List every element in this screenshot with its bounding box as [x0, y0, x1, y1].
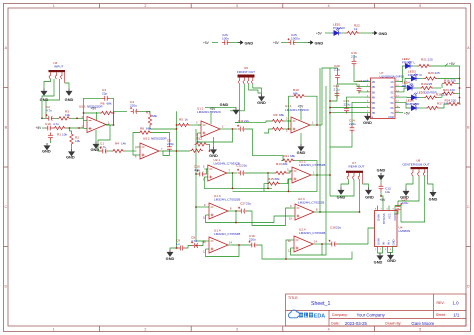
svg-text:C: C	[4, 205, 7, 209]
svg-text:1000u: 1000u	[291, 37, 300, 41]
wire	[359, 32, 372, 34]
wire U2.3 out	[318, 211, 323, 213]
wire U3 pin3	[46, 79, 60, 118]
capacitor C12 22u	[236, 163, 247, 175]
LED6 SUBWFR	[406, 99, 420, 111]
wire	[71, 146, 73, 150]
wire	[246, 172, 275, 174]
svg-text:LM324N_C70532B: LM324N_C70532B	[214, 198, 240, 202]
svg-text:GND: GND	[374, 259, 383, 264]
wire	[325, 32, 332, 34]
svg-text:C: C	[467, 205, 470, 209]
wire	[267, 188, 269, 190]
ground (right arrow)	[308, 40, 323, 45]
svg-text:+5V: +5V	[36, 126, 43, 130]
wire	[230, 42, 238, 44]
wire U1.4 out	[232, 244, 250, 246]
capacitor C1 4.7u	[100, 142, 108, 154]
capacitor C20	[334, 64, 340, 81]
op-amp U1.4 LM324N_C70532B	[203, 228, 240, 253]
svg-text:D: D	[4, 285, 7, 289]
svg-text:68k: 68k	[279, 113, 284, 117]
svg-text:GAIN: GAIN	[376, 214, 380, 221]
ground	[65, 89, 74, 103]
svg-text:7B: 7B	[372, 111, 375, 115]
wire	[235, 211, 237, 223]
svg-text:220u: 220u	[249, 238, 256, 242]
svg-text:REV:: REV:	[437, 301, 445, 305]
svg-text:Date:: Date:	[331, 322, 339, 326]
svg-text:R8: R8	[140, 127, 144, 131]
svg-text:100n: 100n	[222, 37, 229, 41]
capacitor C? vertical to ground	[48, 133, 53, 141]
wire long vertical bus A	[176, 111, 178, 248]
ground (U5.1 V-)	[95, 130, 97, 142]
ground	[40, 89, 49, 103]
capacitor C25	[288, 33, 300, 45]
wire	[431, 66, 460, 104]
wire U2.2 out	[315, 174, 331, 176]
wire LED fan	[400, 66, 410, 108]
svg-text:Company:: Company:	[332, 313, 348, 317]
resistor R2 10k vertical	[70, 133, 81, 146]
svg-text:BYPASS: BYPASS	[382, 213, 386, 224]
wire	[66, 127, 84, 129]
svg-text:22p: 22p	[102, 92, 107, 96]
svg-text:68k: 68k	[107, 102, 112, 106]
svg-text:4: 4	[328, 328, 330, 332]
wire	[395, 211, 398, 215]
connector U6 FRONT OUT	[237, 66, 255, 84]
svg-text:GND: GND	[377, 167, 386, 172]
svg-text:+5V: +5V	[316, 31, 323, 35]
resistor R22 1k	[346, 24, 360, 35]
title block	[286, 294, 467, 326]
resistor R20 225	[424, 71, 440, 80]
capacitor C23	[357, 79, 370, 94]
svg-text:GND: GND	[220, 102, 229, 107]
wire	[437, 78, 460, 80]
op-amp U2.1 LM324N_C70532B	[203, 158, 240, 181]
wire	[398, 176, 419, 204]
capacitor C21	[334, 84, 340, 99]
resistor R3 10k	[58, 110, 71, 121]
svg-text:+5V: +5V	[449, 62, 456, 66]
wire	[341, 32, 346, 34]
resistor R23 220	[442, 88, 460, 98]
ground	[66, 149, 75, 160]
capacitor C24	[349, 118, 356, 133]
svg-text:VCC: VCC	[387, 213, 391, 219]
resistor R6 68k	[100, 102, 113, 115]
svg-text:220u: 220u	[344, 102, 351, 106]
ground (U7)	[363, 114, 372, 126]
svg-text:GND: GND	[166, 256, 175, 261]
wire	[42, 127, 45, 129]
wire feedback loop U5.1	[84, 98, 103, 128]
wire	[437, 97, 442, 99]
svg-text:GND: GND	[257, 100, 266, 105]
ground	[337, 188, 346, 200]
ground (C13 top)	[377, 167, 386, 180]
wire	[381, 192, 383, 206]
wire	[195, 173, 197, 175]
svg-text:R5: R5	[179, 118, 183, 122]
LED1 POWER	[332, 23, 345, 36]
op-amp U1.1 LM324N-TP2520	[196, 106, 224, 137]
wire	[176, 128, 178, 130]
svg-text:+5V: +5V	[380, 198, 387, 202]
wire	[264, 184, 267, 192]
wire	[112, 112, 115, 114]
wire	[338, 81, 366, 87]
resistor R17 225	[426, 102, 449, 110]
svg-text:GND: GND	[65, 97, 74, 102]
wire riser to cap column	[322, 68, 338, 125]
svg-text:LM324N_C70532B: LM324N_C70532B	[299, 231, 325, 235]
wire	[347, 97, 366, 105]
svg-text:1: 1	[53, 328, 55, 332]
wire	[152, 133, 170, 145]
svg-text:GND: GND	[315, 40, 324, 45]
wire	[286, 240, 291, 259]
svg-text:1k: 1k	[185, 118, 189, 122]
wire	[284, 128, 291, 130]
connector U8 CENTER/SUB OUT	[402, 158, 429, 180]
wire	[296, 42, 308, 44]
svg-text:NE5532DR: NE5532DR	[151, 136, 167, 140]
LED2 FRONT L	[402, 57, 415, 69]
wire long vertical bus B	[196, 129, 206, 241]
ground (right arrow)	[372, 31, 387, 36]
svg-text:225: 225	[427, 82, 432, 86]
svg-text:R24: R24	[445, 99, 451, 103]
wire	[257, 245, 352, 259]
ground	[400, 189, 409, 200]
svg-text:GND: GND	[297, 150, 306, 155]
capacitor C26	[222, 33, 230, 45]
wire U4.1 out	[314, 124, 323, 126]
wire U5.2 out	[163, 150, 191, 152]
resistor R10 68k (U4.1 feedback)	[293, 88, 306, 98]
svg-text:+5V: +5V	[404, 111, 411, 115]
ground	[365, 188, 374, 200]
svg-text:2: 2	[144, 4, 146, 8]
svg-text:22u: 22u	[242, 163, 247, 167]
svg-text:R9: R9	[274, 113, 278, 117]
svg-text:10u: 10u	[385, 190, 390, 194]
capacitor C14 220u	[396, 197, 409, 211]
wire	[428, 180, 433, 189]
wire	[233, 190, 289, 192]
svg-text:LM324N_C70532B: LM324N_C70532B	[214, 232, 240, 236]
power flag +5V (U7 COM)	[400, 111, 411, 115]
svg-text:+5V: +5V	[203, 41, 210, 45]
wire U3 pin1 to ground	[44, 79, 51, 89]
svg-text:COM: COM	[388, 116, 394, 119]
wire	[306, 96, 318, 125]
svg-text:GND: GND	[387, 258, 396, 263]
svg-text:220: 220	[451, 99, 456, 103]
resistor R1 10k	[53, 126, 67, 136]
ground	[170, 248, 178, 250]
svg-text:4C: 4C	[390, 96, 393, 100]
svg-text:4.7u: 4.7u	[194, 168, 200, 172]
svg-text:R7: R7	[146, 111, 150, 115]
svg-text:3C: 3C	[390, 90, 393, 94]
svg-text:POWER: POWER	[333, 26, 345, 30]
wire to U5.1	[71, 117, 84, 119]
capacitor C8 4.7u	[191, 236, 200, 248]
wire	[419, 107, 427, 109]
svg-text:GND: GND	[42, 149, 51, 154]
wire	[176, 124, 179, 126]
svg-text:R20: R20	[428, 71, 434, 75]
wire	[413, 65, 418, 67]
capacitor C27 22u	[238, 201, 251, 213]
logo EasyEDA	[289, 310, 326, 319]
wire	[415, 87, 421, 89]
svg-text:2023-03-25: 2023-03-25	[345, 321, 368, 326]
svg-text:TITLE:: TITLE:	[288, 296, 299, 300]
op-amp U5.2 NE5532DR	[135, 136, 167, 159]
svg-text:SUBWFR: SUBWFR	[406, 102, 420, 106]
wire	[163, 151, 170, 156]
svg-text:4.7u: 4.7u	[46, 109, 52, 113]
wire U1.3 feedback loop	[206, 215, 292, 223]
resistor R9 68k	[271, 113, 284, 123]
svg-text:R11: R11	[284, 154, 290, 158]
wire	[320, 211, 359, 213]
svg-text:225: 225	[435, 71, 440, 75]
wire U5.1 out up to C4	[114, 111, 128, 125]
wire U6 left pins down	[235, 84, 240, 122]
svg-text:R18: R18	[436, 92, 442, 96]
capacitor C22	[344, 99, 351, 114]
svg-text:1k: 1k	[354, 27, 358, 31]
svg-text:4B: 4B	[372, 96, 375, 100]
svg-text:1/1: 1/1	[453, 312, 460, 317]
wire	[253, 84, 262, 94]
wire riser	[322, 86, 326, 255]
wire	[186, 246, 192, 249]
resistor R16 220	[442, 78, 460, 88]
svg-text:U5.2: U5.2	[143, 136, 150, 140]
svg-text:R6: R6	[101, 102, 105, 106]
wire	[54, 117, 58, 119]
svg-text:IN +: IN +	[386, 240, 390, 245]
wire riser	[319, 68, 321, 212]
svg-text:14k: 14k	[121, 142, 126, 146]
capacitor C11 22u	[237, 119, 249, 131]
svg-text:220p: 220p	[167, 142, 174, 146]
svg-text:GND: GND	[209, 153, 218, 158]
svg-text:220u: 220u	[402, 201, 409, 205]
ground	[213, 137, 215, 147]
wire	[363, 184, 369, 188]
svg-text:GND: GND	[391, 239, 395, 245]
resistor R13 68k	[275, 162, 288, 175]
wire	[433, 87, 441, 89]
svg-text:3: 3	[236, 328, 238, 332]
svg-text:GND: GND	[337, 195, 346, 200]
op-amp U4.1 LM324N-TP2520	[285, 104, 314, 133]
wire	[388, 252, 391, 253]
resistor R19 225	[420, 82, 433, 90]
svg-text:C10: C10	[45, 122, 51, 126]
svg-text:68k: 68k	[146, 127, 151, 131]
ground (right arrow)	[238, 40, 253, 45]
wire	[378, 252, 381, 254]
connector U5 REAR OUT	[346, 161, 365, 184]
capacitor C2 4.7u	[46, 105, 54, 121]
wire	[139, 111, 151, 113]
wire	[247, 208, 292, 226]
svg-text:VOUT: VOUT	[393, 213, 397, 221]
wire	[354, 67, 366, 82]
capacitor C4 220u	[130, 100, 139, 114]
capacitor C3 22p	[102, 88, 110, 101]
wire	[281, 42, 288, 44]
resistor R18 225	[424, 92, 448, 99]
wire	[406, 176, 413, 189]
svg-text:GND: GND	[363, 120, 372, 125]
wire U2.4 feedback loop	[291, 244, 323, 255]
ground	[429, 190, 438, 202]
IC U7 ULN2003A-DIP16	[366, 71, 405, 119]
svg-text:2.2u: 2.2u	[334, 67, 340, 71]
wire	[50, 141, 52, 144]
svg-text:GND: GND	[429, 196, 438, 201]
wire	[205, 106, 236, 108]
wire U6 to ground	[249, 84, 262, 93]
svg-text:225: 225	[428, 57, 433, 61]
op-amp U2.2 LM324N_C70532B	[287, 160, 325, 184]
ground	[220, 102, 240, 115]
wire	[330, 107, 366, 109]
svg-text:+5V: +5V	[91, 107, 98, 111]
svg-text:1u: 1u	[176, 242, 180, 246]
ground	[300, 133, 302, 144]
capacitor C16 220u	[249, 234, 257, 247]
svg-text:+5V: +5V	[210, 107, 217, 111]
resistor R4 14k	[112, 142, 127, 153]
wire U2.1 feedback loop	[204, 177, 272, 188]
svg-text:5: 5	[419, 4, 421, 8]
op-amp U2.3 LM324N_C70532B	[289, 197, 324, 220]
svg-text:Drawn By:: Drawn By:	[385, 322, 401, 326]
ground	[387, 253, 396, 263]
wire U1.1 feedback loop	[198, 129, 233, 142]
wire	[439, 104, 448, 108]
svg-text:2B: 2B	[372, 85, 375, 89]
ground	[42, 143, 51, 154]
svg-text:R15: R15	[268, 177, 274, 181]
op-amp U1.3 LM324N_C70532B	[203, 194, 240, 219]
svg-text:Gare Moore: Gare Moore	[411, 321, 435, 326]
svg-text:R1: R1	[57, 132, 61, 136]
wire	[212, 42, 218, 44]
svg-text:+5V: +5V	[298, 104, 305, 108]
wire	[246, 129, 284, 161]
capacitor C10 4.7u	[45, 122, 59, 131]
svg-text:IN -: IN -	[381, 241, 385, 245]
wire	[108, 150, 112, 152]
wire	[359, 180, 361, 212]
svg-text:6B: 6B	[372, 106, 375, 110]
wire U2.2 feedback loop	[289, 175, 318, 191]
wire U1.1 out	[224, 128, 238, 130]
wire U1.3 out	[232, 210, 239, 212]
connector U3 INPUT	[49, 61, 66, 83]
wire	[395, 176, 425, 222]
svg-text:Sheet:: Sheet:	[436, 313, 446, 317]
svg-text:R21: R21	[421, 57, 427, 61]
svg-text:EDA: EDA	[314, 313, 325, 319]
wire	[235, 121, 266, 123]
svg-text:1B: 1B	[372, 80, 375, 84]
svg-text:2: 2	[144, 328, 146, 332]
ground	[257, 94, 266, 105]
resistor R11 68k	[271, 127, 284, 130]
capacitor C5 220p	[167, 139, 174, 153]
wire	[150, 127, 177, 130]
svg-text:1.0: 1.0	[453, 300, 460, 305]
wire from U5.1 out down to C1	[98, 125, 110, 151]
svg-text:D: D	[467, 285, 470, 289]
svg-text:5B: 5B	[372, 101, 375, 105]
op-amp U5.1 NE5532DR	[79, 104, 110, 132]
svg-text:GAIN: GAIN	[376, 238, 380, 245]
resistor R11 68k	[282, 154, 296, 163]
svg-text:68k: 68k	[283, 162, 288, 166]
wire	[336, 92, 338, 99]
svg-text:LM324N_C70532B: LM324N_C70532B	[299, 163, 325, 167]
svg-text:3B: 3B	[372, 90, 375, 94]
svg-text:220u: 220u	[349, 122, 356, 126]
svg-text:CENTER/SUB OUT: CENTER/SUB OUT	[402, 162, 429, 166]
svg-text:10k: 10k	[75, 139, 80, 143]
svg-text:R17: R17	[437, 102, 443, 106]
svg-text:220: 220	[450, 88, 455, 92]
svg-text:+5V: +5V	[273, 41, 280, 45]
svg-text:6C: 6C	[390, 106, 393, 110]
svg-text:220u: 220u	[130, 104, 137, 108]
wire U4.1 feedback loop	[289, 96, 293, 129]
svg-text:68k: 68k	[275, 177, 280, 181]
svg-text:22u: 22u	[336, 226, 341, 230]
wire	[330, 180, 354, 196]
svg-text:REAR OUT: REAR OUT	[349, 164, 365, 168]
svg-text:4.7u: 4.7u	[53, 122, 59, 126]
wire	[380, 179, 382, 183]
wire U1.4 feedback loop	[206, 245, 240, 257]
svg-text:GND: GND	[66, 155, 75, 160]
wire	[84, 112, 101, 114]
capacitor C13 10u	[379, 184, 391, 195]
wire	[341, 180, 349, 188]
svg-text:5C: 5C	[390, 101, 393, 105]
capacitor C18 22u	[329, 226, 342, 247]
capacitor C15 4.7u	[194, 165, 205, 177]
svg-text:2C: 2C	[390, 85, 393, 89]
resistor R7 68k vertical	[146, 111, 157, 127]
wire	[419, 78, 425, 80]
svg-text:LM324N_C70532B: LM324N_C70532B	[298, 201, 324, 205]
wire	[70, 128, 72, 133]
svg-text:Sheet_1: Sheet_1	[311, 301, 330, 307]
ground	[374, 253, 384, 264]
